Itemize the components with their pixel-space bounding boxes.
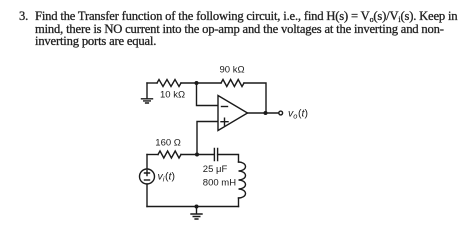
node A (junction dot) <box>195 81 199 85</box>
svg-text:90 kΩ: 90 kΩ <box>220 65 245 76</box>
problem statement text <box>19 10 28 23</box>
wire: op-amp output to terminal <box>248 112 279 114</box>
svg-text:vo(t): vo(t) <box>288 108 308 121</box>
wire: R2 to feedback corner down to output node <box>244 83 266 113</box>
svg-text:vi(t): vi(t) <box>158 171 175 184</box>
capacitor C1 25 uF <box>214 149 217 161</box>
node B (junction dot) <box>195 153 199 157</box>
wire: bottom of loop <box>147 206 239 208</box>
svg-text:10 kΩ: 10 kΩ <box>160 90 185 101</box>
resistor R2 90 kOhm (feedback) <box>221 80 244 87</box>
ground G1 (top-left) <box>142 83 153 103</box>
wire: C1 to right corner <box>218 155 239 163</box>
svg-text:800 mH: 800 mH <box>203 178 236 189</box>
terminal vo open circle <box>279 111 283 115</box>
wire: ground to R1 <box>147 82 157 84</box>
node: bottom junction dot <box>195 205 199 209</box>
op-amp U1 <box>218 96 248 131</box>
wire: non-inverting input to node B <box>197 122 218 155</box>
source V1 vi(t) <box>140 169 155 184</box>
wire: R3 to node B <box>181 154 214 156</box>
svg-text:25 μF: 25 μF <box>203 164 228 175</box>
inductor L1 800 mH <box>239 162 246 198</box>
wire: loop top-left corner to R3 <box>147 154 158 156</box>
wire: source to loop corner <box>146 155 148 170</box>
wire: node A to R2 <box>197 82 222 84</box>
ground G2 (bottom) <box>191 207 202 220</box>
node: output junction dot <box>264 111 268 115</box>
svg-text:160 Ω: 160 Ω <box>155 138 181 149</box>
resistor R1 10 kOhm <box>157 80 181 87</box>
wire: source down to bottom wire <box>146 184 148 207</box>
wire: node A down to inverting input <box>197 83 219 106</box>
resistor R3 160 Ohm <box>158 151 181 158</box>
wire: R1 to node A <box>181 82 197 84</box>
wire: L1 to bottom wire <box>238 198 240 207</box>
